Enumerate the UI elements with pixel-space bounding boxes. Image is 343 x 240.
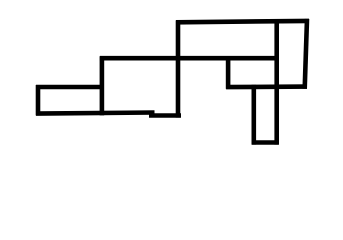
rectangle R3 (large top rectangle) top edge shared with rectangle R4 top: [176, 21, 309, 22]
rectangle R5 (middle right rectangle) left edge: [226, 56, 231, 89]
rectangle R4 bottom edge shared with rectangle R5 bottom: [226, 84, 307, 89]
rectangle R2 right edge shared with rectangle R3 left edge: [176, 20, 181, 117]
rectangle R2 (medium rectangle) left edge: [100, 56, 105, 115]
rectangle R3 right edge shared with rectangle R4 left and rectangle R6 right: [274, 19, 279, 145]
rectangle R6 bottom edge: [252, 140, 279, 145]
rectangle R1 top edge: [36, 85, 104, 90]
rectangle R4 (tall right rectangle) right edge: [305, 19, 307, 89]
rectangle R6 (small bottom rectangle) left edge: [252, 85, 257, 145]
rectangle R2 bottom edge lower pass: [149, 113, 181, 118]
rectangle R1 (small left rectangle) left edge: [36, 85, 41, 115]
rectangle R1 bottom edge continuing as rectangle R2 bottom upper pass: [36, 113, 155, 114]
rectangle R2 top edge shared with rectangle R3 bottom and rectangle R5 top: [100, 56, 279, 61]
